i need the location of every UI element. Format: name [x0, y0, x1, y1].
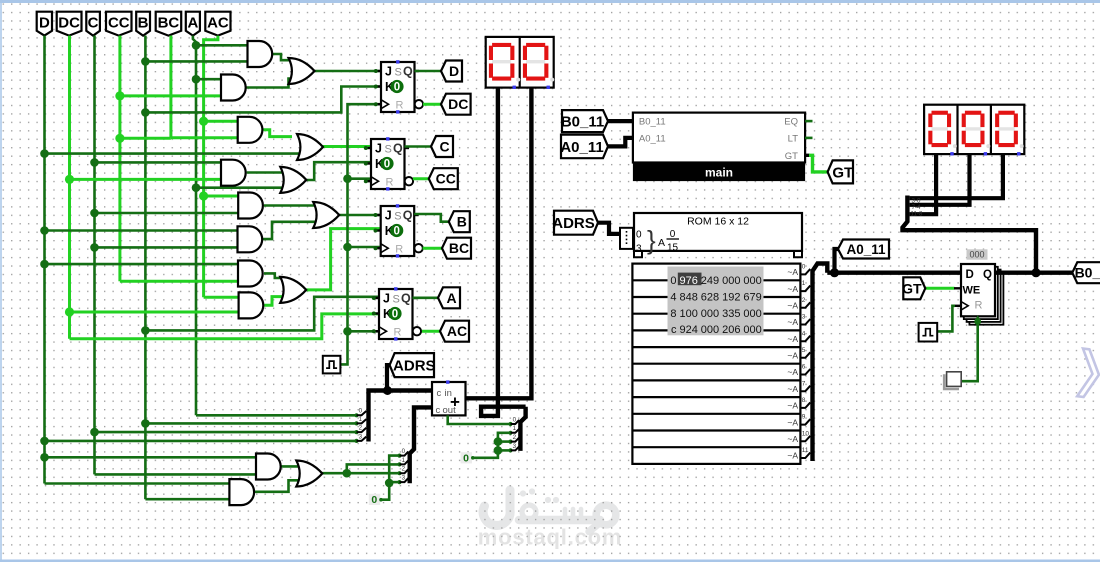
window border top [0, 0, 1100, 3]
tunnel B0_11 (right edge) [1072, 262, 1100, 283]
svg-text:EQ: EQ [784, 117, 798, 128]
svg-text:A: A [658, 237, 665, 249]
wire CC to AND3 lower(cross) [120, 137, 171, 140]
node clk-FF2 [343, 174, 352, 183]
svg-text:LT: LT [788, 133, 799, 144]
svg-text:DC: DC [58, 15, 80, 32]
svg-text:4: 4 [670, 291, 676, 303]
svg-text:1: 1 [513, 425, 517, 432]
svg-text:2: 2 [513, 434, 517, 441]
node AC-196 [199, 191, 208, 200]
OR gate 6 (bottom) [296, 461, 322, 487]
JK flip-flop FF2 (C) [364, 137, 413, 190]
svg-text:A0_11: A0_11 [639, 133, 666, 144]
splitter S2 pins (4 to 1 merger) [397, 448, 408, 484]
svg-text:D: D [39, 15, 50, 32]
svg-text:GT: GT [832, 164, 853, 181]
tunnel DC (input) [57, 12, 82, 36]
bus splitter5 vertical [813, 264, 828, 462]
svg-text:~A: ~A [787, 434, 798, 444]
svg-text:1: 1 [802, 280, 806, 287]
tunnel AC (output) [440, 321, 469, 342]
tunnel CC (output) [429, 168, 458, 189]
svg-text:out: out [443, 405, 457, 416]
svg-text:~A: ~A [787, 367, 798, 377]
wire AND8 out to OR5 [264, 297, 283, 306]
wire B to FF1 K [145, 87, 381, 113]
svg-text:0: 0 [371, 494, 377, 506]
svg-text:Q: Q [983, 269, 992, 281]
svg-text:AC: AC [207, 15, 229, 32]
splitter S5 tabs (12 to 1 merger) [800, 264, 810, 459]
svg-text:c: c [436, 405, 441, 416]
svg-text:0: 0 [670, 229, 676, 240]
svg-text:R: R [386, 177, 394, 189]
svg-text:J: J [385, 65, 392, 79]
node D-264 [40, 260, 49, 269]
svg-text:8: 8 [802, 397, 806, 404]
svg-text:~A: ~A [787, 334, 798, 344]
svg-text:0: 0 [802, 264, 806, 271]
wire D to AND10 top [45, 482, 230, 485]
tunnel ADRS (left) [390, 353, 436, 377]
wire AC vertical [204, 36, 218, 298]
clock component CLK2 [919, 323, 938, 342]
splitter S6 label 3-0 [912, 197, 922, 204]
svg-text:A: A [446, 290, 456, 306]
svg-text:R: R [395, 244, 403, 256]
svg-text:9: 9 [802, 414, 806, 421]
svg-text:Q: Q [403, 209, 413, 223]
svg-text:B: B [457, 214, 467, 230]
wire D to AND9 top [45, 456, 257, 459]
svg-text:4: 4 [802, 330, 806, 337]
svg-text:0: 0 [670, 275, 676, 287]
register value badge 000 [967, 249, 988, 259]
wire C to AND5 bottom [95, 212, 239, 215]
bus splitter5 to register D [827, 271, 961, 275]
svg-text:WE: WE [963, 285, 981, 297]
wire D to AND7 top [45, 263, 239, 266]
7-segment display x3 (right) [924, 105, 1024, 156]
wire FF1 nQ to DC [423, 103, 441, 106]
AND gate 8 (cluster A) [239, 292, 264, 318]
bus B0_11 to main [608, 119, 633, 123]
svg-text:ADRS: ADRS [552, 215, 595, 232]
svg-text:S: S [393, 294, 400, 306]
svg-text:976: 976 [680, 275, 698, 287]
register stack (D Q WE R) [961, 264, 1003, 325]
watermark mostaql [483, 488, 616, 531]
svg-text:15: 15 [667, 243, 679, 254]
svg-text:8: 8 [670, 308, 676, 320]
svg-text:2: 2 [359, 425, 363, 432]
constant 0 (badge a) [369, 494, 383, 506]
tunnel BC (output) [442, 238, 471, 259]
tunnel A (input) [186, 12, 200, 36]
bus display1 hook [481, 88, 525, 416]
svg-text:000: 000 [743, 324, 761, 336]
svg-text:~A: ~A [787, 451, 798, 461]
svg-text:335: 335 [722, 308, 740, 320]
svg-text:C: C [88, 15, 99, 32]
node const0a [385, 479, 394, 488]
svg-text:GT: GT [902, 280, 922, 296]
bus A0_11 to main [608, 138, 633, 147]
wire C vertical [93, 36, 96, 475]
svg-text:3: 3 [402, 475, 406, 482]
wire FF3 nQ to BC [423, 247, 442, 250]
svg-text:628: 628 [701, 291, 719, 303]
svg-text:000: 000 [743, 275, 761, 287]
wire main EQ stub [805, 120, 812, 123]
wire AC to AND5 top [204, 195, 239, 198]
watermark chevron [1077, 349, 1100, 399]
tunnel A0_11 (net) [838, 240, 889, 259]
svg-text:3: 3 [359, 433, 363, 440]
AND gate 5 (cluster B) [238, 193, 263, 219]
svg-text:11: 11 [802, 447, 809, 454]
tunnel CC (input) [106, 12, 132, 36]
svg-text:924: 924 [680, 324, 698, 336]
node D-457 [40, 453, 49, 462]
node A-45 [192, 41, 201, 50]
node button-R [974, 318, 981, 325]
constant 0 (badge b) [461, 452, 475, 464]
bus ADRS2 to ROM splitter [598, 223, 620, 234]
wire clock to FF3 C [348, 246, 382, 249]
svg-text:2: 2 [802, 297, 806, 304]
bus display wire w2 [910, 154, 970, 205]
node C-162 [90, 158, 99, 167]
node DC-179 [65, 175, 74, 184]
wire A to splitter1 pin0 [196, 414, 357, 417]
svg-text:3: 3 [802, 314, 806, 321]
svg-text:100: 100 [680, 308, 698, 320]
svg-text:10: 10 [802, 430, 810, 437]
node ADRS-bus [383, 386, 392, 395]
svg-text:J: J [375, 142, 382, 156]
svg-text:848: 848 [680, 291, 698, 303]
AND gate 10 (bottom) [229, 479, 254, 505]
wire AND10 out to OR6 [255, 480, 300, 492]
node B-423 [141, 419, 150, 428]
tunnel BC (input) [156, 12, 182, 36]
wire AND7 out to OR5 [264, 273, 284, 278]
node const0b-1 [494, 437, 503, 446]
wire A to OR3 bottom [196, 186, 284, 189]
wire D vertical [43, 36, 46, 484]
node A0_11 junction [830, 268, 839, 277]
JK flip-flop FF4 (A) [372, 287, 421, 340]
svg-text:A0_11: A0_11 [560, 139, 603, 156]
svg-text:000: 000 [701, 308, 719, 320]
svg-text:S: S [394, 211, 401, 223]
OR gate 2 (cluster C) [297, 134, 323, 160]
svg-text:BC: BC [449, 240, 469, 256]
AND gate 3 (cluster C) [238, 117, 263, 143]
wire OR1 out to FF1 J [314, 70, 381, 73]
tunnel D (output) [441, 61, 462, 82]
AND gate 4 (cluster C) [221, 160, 246, 186]
ROM 16x12 block [634, 213, 802, 257]
wire AND2 out to OR1 [247, 79, 294, 88]
wire splitter3 pin3 [498, 449, 511, 452]
clock component CLK1 [323, 356, 341, 374]
svg-text:main: main [705, 165, 733, 179]
bus display wire w1 [910, 154, 937, 214]
svg-text:0: 0 [394, 82, 400, 94]
node CC-96 [115, 91, 124, 100]
wire AC to AND8 top [204, 296, 239, 299]
wire B to AND10 bottom [145, 498, 229, 501]
svg-text:J: J [385, 209, 392, 223]
wire C to splitter1 pin2 [95, 431, 357, 434]
bus splitter6 to register Q [903, 196, 1037, 273]
OR gate 4 (cluster B) [313, 202, 339, 228]
node D-153 [40, 149, 49, 158]
wire splitter3 pin2 [498, 440, 511, 443]
wire CC to AND2 bottom [120, 94, 221, 97]
bus adder s to display2 [466, 88, 532, 399]
wire AND1 out to OR1 [273, 54, 292, 60]
bus splitter1 to adder a [369, 391, 433, 442]
wire FF1 Q to D [415, 70, 442, 73]
svg-text:Q: Q [401, 292, 411, 306]
wire FF4 nQ to AC [422, 330, 440, 333]
svg-text:679: 679 [743, 291, 761, 303]
svg-text:~A: ~A [787, 401, 798, 411]
tunnel C (output) [431, 136, 453, 157]
node D-441 [40, 437, 49, 446]
svg-text:S: S [395, 67, 402, 79]
node A-79 [192, 75, 201, 84]
node C-247 [90, 243, 99, 252]
svg-text:A: A [187, 15, 198, 32]
AND gate 7 (cluster A) [238, 261, 263, 287]
svg-text:~A: ~A [787, 417, 798, 427]
wire AND4 out to OR3 [247, 171, 284, 174]
wire GT2 to register WE [925, 287, 954, 290]
stub register C [955, 305, 962, 307]
svg-text:B0_1: B0_1 [1075, 265, 1100, 281]
svg-text:0: 0 [402, 448, 406, 455]
svg-text:1: 1 [359, 416, 363, 423]
svg-text:0: 0 [393, 226, 399, 238]
bus register Q to B0 tunnel [995, 271, 1072, 275]
wire FF4 Q to A [413, 296, 439, 299]
wire C to AND4 top [95, 161, 222, 164]
svg-text:R: R [396, 100, 404, 112]
wire AC to AND3 top [204, 120, 238, 123]
wire OR3 out to FF2 K [306, 162, 371, 180]
AND gate 1 (cluster D) [248, 41, 273, 67]
svg-text:~A: ~A [787, 351, 798, 361]
wire DC vertical [68, 36, 71, 339]
svg-text:249: 249 [701, 275, 719, 287]
wire BC vertical [169, 36, 172, 138]
node C-213 [90, 209, 99, 218]
window border left [0, 3, 2, 560]
svg-text:0: 0 [513, 416, 517, 423]
svg-text:GT: GT [785, 151, 798, 162]
tunnel A0_11 [560, 135, 608, 159]
ROM contents table (current row highlighted) [668, 267, 764, 337]
svg-text:B0_11: B0_11 [561, 114, 604, 131]
wire A vertical [193, 36, 196, 416]
wire const0b to splitter3 [473, 433, 511, 458]
svg-text:0: 0 [359, 408, 363, 415]
wire ADRS1 to bus [387, 365, 390, 390]
svg-text:A0_11: A0_11 [846, 242, 886, 257]
node B-61 [141, 57, 150, 66]
svg-text:c: c [437, 388, 442, 399]
svg-text:000: 000 [722, 275, 740, 287]
push button component [944, 372, 961, 389]
node A-188 [192, 183, 201, 192]
wire AND6 out to OR4 [263, 222, 317, 239]
svg-text:BC: BC [158, 15, 180, 32]
svg-text:J: J [383, 292, 390, 306]
wire A to AND2 top [196, 78, 221, 81]
wire splitter2 pin3 [389, 481, 399, 484]
svg-text:0: 0 [636, 230, 642, 241]
node CC-138 [115, 134, 124, 143]
wire DC to AND8 bottom [70, 311, 239, 314]
wire button to register R [962, 320, 978, 381]
tunnel B (output) [449, 211, 470, 232]
wire clock line [340, 104, 381, 364]
svg-text:Q: Q [403, 65, 413, 79]
node register Q junction [1031, 268, 1040, 277]
svg-text:S: S [385, 144, 392, 156]
OR gate 5 (cluster A) [280, 277, 306, 303]
wire main GT elbow [805, 154, 809, 157]
tunnel B0_11 [561, 110, 608, 132]
svg-text:D: D [449, 63, 459, 79]
wire DC to FF4 K [70, 314, 380, 339]
node B-330 [141, 326, 150, 335]
bus display wire w3 [910, 154, 1003, 198]
svg-text:Q: Q [393, 142, 403, 156]
wire CC vertical [118, 36, 121, 282]
node DC-312 [65, 307, 74, 316]
svg-text:R: R [394, 327, 402, 339]
wire clock2 to register C [937, 306, 955, 332]
wire B to splitter1 pin1 [145, 422, 356, 425]
tunnel C (input) [86, 12, 100, 36]
subcircuit block main (comparator) [633, 113, 805, 182]
node B-112 [141, 108, 150, 117]
tunnel DC (output) [441, 94, 471, 115]
OR gate 3 (cluster C) [280, 167, 306, 193]
svg-text:CC: CC [436, 171, 456, 187]
svg-text:000: 000 [743, 308, 761, 320]
splitter S6 label 11-8 [911, 211, 923, 218]
svg-text:B: B [138, 15, 149, 32]
wire B vertical [144, 36, 147, 500]
JK flip-flop FF1 (D) [374, 60, 423, 113]
svg-text:ROM 16 x 12: ROM 16 x 12 [687, 216, 749, 228]
wire AND3 out to OR2 [264, 130, 293, 137]
wire GT to tunnel [809, 155, 828, 172]
svg-text:CC: CC [108, 15, 130, 32]
wire OR2 out to FF2 J [323, 145, 372, 148]
wire adder c_out to splitter3 [448, 415, 511, 424]
wire OR4 out to FF3 J [339, 214, 381, 217]
wire C to AND9 bottom [95, 473, 257, 476]
bus node to A0_11 tunnel [835, 249, 839, 273]
splitter S6 label 7-4 [912, 204, 922, 211]
wire clock to FF2 C [348, 177, 372, 180]
svg-text:0: 0 [392, 309, 398, 321]
svg-text:AC: AC [447, 323, 467, 339]
splitter S3 pins (4 to 1 merger) [508, 416, 519, 452]
ROM data rows box (12 outputs) [632, 264, 800, 464]
AND gate 2 (cluster D) [221, 75, 246, 101]
node clk-FF4 [343, 327, 352, 336]
node C-432 [90, 428, 99, 437]
svg-text:c: c [671, 324, 677, 336]
node AC-121 [199, 117, 208, 126]
svg-text:1: 1 [402, 457, 406, 464]
node OR6-branch [343, 469, 352, 478]
JK flip-flop FF3 (B) [374, 204, 423, 257]
svg-text:B0_11: B0_11 [639, 117, 666, 128]
wire FF3 Q to B [414, 214, 449, 222]
wire AND9 out to OR6 [282, 465, 301, 468]
svg-text:DC: DC [448, 96, 468, 112]
svg-text:~A: ~A [787, 301, 798, 311]
wire OR6 branch to splitter2 pin1 [347, 464, 400, 473]
svg-text:000: 000 [701, 324, 719, 336]
tunnel A (output) [438, 287, 460, 308]
wire FF2 Q to C [405, 145, 432, 148]
AND gate 9 (bottom) [256, 454, 281, 480]
tunnel B (input) [136, 12, 150, 36]
wire DC to AND4 bottom [70, 178, 222, 181]
OR gate 1 (cluster D) [289, 58, 315, 84]
svg-text:~A: ~A [787, 384, 798, 394]
wire const0a to splitter2 [381, 456, 400, 500]
svg-text:2: 2 [402, 466, 406, 473]
svg-text:206: 206 [722, 324, 740, 336]
svg-text:3: 3 [513, 443, 517, 450]
stub register WE [954, 287, 961, 289]
wire FF2 nQ to CC [413, 177, 429, 180]
svg-text:192: 192 [722, 291, 740, 303]
7-segment display x2 (top middle) [486, 37, 555, 89]
wire OR6 out to splitter2 pin2 [322, 472, 399, 475]
tunnel ADRS (to ROM) [552, 211, 598, 235]
svg-text:~A: ~A [787, 284, 798, 294]
svg-text:C: C [439, 139, 449, 155]
svg-text:11-8: 11-8 [911, 211, 923, 218]
node clk-FF3 [343, 243, 352, 252]
wire D to splitter1 pin3 [45, 440, 357, 443]
bus splitter2 to adder b [410, 407, 432, 483]
AND gate 6 (cluster B) [238, 226, 263, 252]
node D-230 [40, 226, 49, 235]
splitter S4 (address 1 to 4) [620, 228, 633, 249]
tunnel GT (from main) [828, 160, 854, 183]
wire A to AND1 top [196, 44, 248, 47]
svg-text:~A: ~A [787, 267, 798, 277]
tunnel D (input) [37, 12, 52, 36]
wire B to AND1 bottom [145, 60, 247, 63]
svg-text:~A: ~A [787, 317, 798, 327]
tunnel GT (to register) [902, 277, 925, 299]
